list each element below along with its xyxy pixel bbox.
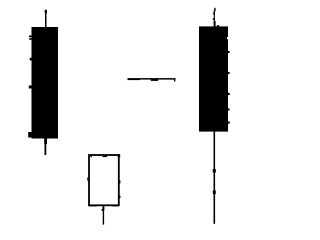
candle 4 bottom wick [102,206,105,224]
candle 3 right-edge specks [228,51,230,124]
candle 1 (left black candle) top wick [45,10,47,28]
candle 2 (doji dash) [128,78,176,81]
candle 3 (right black candle) top wick [213,8,216,27]
candle 4 edge ticks [87,178,120,184]
candle 1 left-edge scan ticks [28,36,32,138]
candle 3 right-edge white notch [227,37,228,39]
candle 4 (small white candle) body [89,155,119,205]
candle 1 body [32,27,59,139]
candle 4 outline irregularities [89,154,121,206]
candle 3 top-edge blob [217,25,219,27]
candle 3 body [199,26,228,131]
candle 3 bottom wick [213,132,216,224]
candle 1 bottom wick [44,138,47,155]
